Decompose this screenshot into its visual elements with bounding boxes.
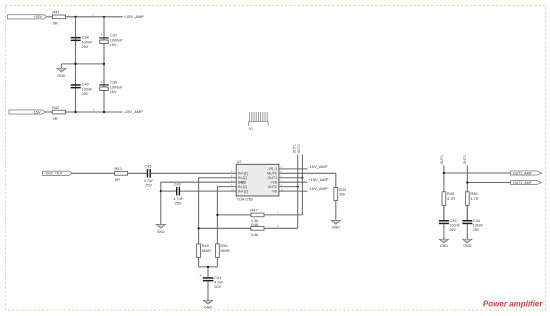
connector IO — [249, 112, 269, 126]
svg-text:C38: C38 — [82, 36, 89, 40]
svg-text:3.3k: 3.3k — [251, 232, 258, 237]
resistor R45 — [442, 191, 455, 205]
svg-text:0R: 0R — [53, 116, 58, 121]
svg-text:GND: GND — [332, 226, 341, 230]
resistor R50 — [216, 243, 230, 257]
svg-text:R43: R43 — [115, 166, 122, 171]
svg-text:U7: U7 — [237, 159, 242, 164]
wire IN-2 riser — [217, 187, 236, 244]
resistor R42 — [52, 105, 65, 121]
svg-text:-VS: -VS — [271, 189, 278, 193]
svg-text:R48: R48 — [251, 222, 258, 227]
svg-text:25V: 25V — [473, 228, 480, 232]
svg-text:OUT2: OUT2 — [297, 144, 301, 153]
svg-text:MUTE: MUTE — [267, 172, 278, 176]
svg-text:4.7uF: 4.7uF — [214, 281, 224, 285]
port +15V — [8, 15, 48, 19]
svg-text:25V: 25V — [82, 92, 89, 96]
port OUT2_AMP — [511, 180, 542, 184]
pin numbers left — [231, 170, 234, 192]
resistor R44 — [334, 187, 347, 201]
net OUT2 bus (IC side) — [297, 155, 299, 229]
svg-text:GND: GND — [440, 244, 449, 248]
wire IN+2 row — [161, 190, 236, 192]
wire R49/R50 join — [199, 258, 218, 278]
svg-text:R42: R42 — [52, 105, 59, 110]
wire C44 to gnd — [466, 224, 468, 239]
svg-text:R47: R47 — [250, 208, 257, 213]
wire R48 row — [199, 227, 298, 229]
svg-text:16V: 16V — [110, 90, 117, 94]
wire MUTE to R44 — [279, 173, 336, 187]
gnd row wire — [62, 63, 105, 65]
svg-text:25V: 25V — [175, 202, 182, 206]
resistor R48 — [251, 222, 264, 237]
svg-text:560R: 560R — [220, 248, 229, 253]
svg-text:-VS_1: -VS_1 — [267, 167, 277, 171]
wire +VS to +15V_AMP — [279, 181, 308, 183]
capacitor C42 — [144, 165, 154, 188]
wire -VS to -15V_AMP — [279, 190, 308, 192]
svg-text:GND: GND — [204, 305, 213, 309]
port -15V — [9, 110, 46, 114]
op-amp U7 TDA7265 — [236, 159, 279, 202]
wire R44 to gnd — [335, 201, 337, 221]
net OUT1 bus (IC side) — [301, 155, 303, 215]
svg-text:C45: C45 — [450, 219, 457, 223]
capacitor C41 — [200, 272, 225, 289]
wire OUT2 pin stub — [279, 186, 298, 188]
resistor R47 — [250, 208, 264, 223]
capacitor C37 — [99, 32, 123, 47]
pin numbers right — [281, 165, 284, 191]
svg-text:+VS: +VS — [270, 181, 277, 185]
svg-text:4.7uF: 4.7uF — [144, 179, 154, 183]
port OSC_OUT — [43, 171, 73, 175]
svg-text:560R: 560R — [202, 248, 211, 253]
svg-text:OUT1_AMP: OUT1_AMP — [513, 171, 533, 175]
svg-text:4.7uF: 4.7uF — [173, 197, 183, 201]
resistor R43 — [115, 166, 128, 182]
ground (input) — [156, 224, 165, 234]
svg-text:OSC_OUT: OSC_OUT — [46, 172, 64, 176]
svg-text:25V: 25V — [82, 45, 89, 49]
svg-text:1000uF: 1000uF — [110, 86, 124, 90]
svg-text:-15V: -15V — [32, 110, 40, 114]
wire C45 to gnd — [443, 224, 445, 239]
svg-text:GND: GND — [463, 244, 472, 248]
svg-text:C43: C43 — [174, 183, 181, 187]
wire C41 to gnd — [207, 281, 209, 300]
svg-text:-15V_AMP: -15V_AMP — [308, 186, 328, 191]
wire GND pin branch — [161, 182, 236, 224]
wire -15V row — [46, 111, 123, 113]
svg-text:16V: 16V — [110, 43, 117, 47]
node C43/GND — [160, 190, 162, 192]
svg-text:TDA7265: TDA7265 — [237, 197, 253, 202]
capacitor C44 — [462, 219, 484, 232]
net OUT2 bus (output side) — [466, 165, 468, 220]
svg-text:IN+[1]: IN+[1] — [238, 172, 248, 176]
svg-text:OUT1: OUT1 — [292, 144, 296, 153]
svg-text:C39: C39 — [110, 81, 117, 85]
svg-text:10k: 10k — [339, 192, 345, 197]
capacitor C40 — [71, 83, 93, 97]
svg-text:R41: R41 — [52, 10, 59, 15]
svg-text:IO: IO — [249, 127, 253, 131]
svg-text:25V: 25V — [449, 228, 456, 232]
ground (C45) — [439, 239, 448, 248]
resistor R46 — [465, 191, 478, 205]
resistor R49 — [197, 243, 211, 257]
svg-text:OUT2_AMP: OUT2_AMP — [513, 181, 533, 185]
svg-text:+15V_AMP: +15V_AMP — [124, 14, 145, 19]
svg-text:+15V_AMP: +15V_AMP — [308, 177, 329, 182]
svg-text:OUT2: OUT2 — [463, 155, 467, 164]
resistor R41 — [52, 10, 65, 26]
capacitor C43 — [173, 183, 183, 206]
wire -VS_1 to -15V_AMP — [279, 168, 308, 170]
wire column C38 — [75, 17, 77, 112]
capacitor C45 — [439, 219, 461, 232]
wire to OUT1_AMP — [444, 172, 511, 174]
svg-text:4.7R: 4.7R — [470, 196, 478, 201]
port OUT1_AMP — [511, 171, 542, 175]
svg-text:IN-[1]: IN-[1] — [238, 176, 247, 180]
svg-text:C44: C44 — [473, 219, 480, 223]
wire R45 to C45 — [443, 205, 445, 220]
ground (R44) — [331, 220, 340, 229]
svg-text:IN-[2]: IN-[2] — [238, 185, 247, 189]
wire R47 row — [217, 214, 302, 216]
svg-text:100nF: 100nF — [449, 224, 460, 228]
svg-text:C42: C42 — [145, 165, 152, 169]
svg-text:-15V_AMP: -15V_AMP — [124, 109, 144, 114]
svg-text:100nF: 100nF — [82, 40, 93, 44]
svg-text:+15V: +15V — [33, 15, 42, 19]
wire OSC row — [73, 172, 237, 174]
svg-text:OUT1: OUT1 — [268, 176, 278, 180]
ground (C44) — [463, 239, 472, 248]
svg-text:25V: 25V — [145, 183, 152, 187]
svg-text:-15V_AMP: -15V_AMP — [308, 164, 328, 169]
svg-text:50V: 50V — [214, 285, 221, 289]
svg-text:100nF: 100nF — [82, 87, 93, 91]
capacitor C39 — [99, 79, 123, 94]
svg-text:GND: GND — [57, 74, 66, 78]
svg-text:OUT2: OUT2 — [268, 185, 278, 189]
wire OUT1 pin stub — [279, 177, 303, 179]
wire +15V row — [47, 16, 123, 18]
wire to OUT2_AMP — [467, 182, 510, 184]
svg-text:0R: 0R — [53, 21, 58, 26]
wire IN-1 riser — [199, 178, 237, 244]
capacitor C38 — [71, 36, 93, 50]
ground (top-left) — [57, 64, 66, 78]
svg-text:100nF: 100nF — [473, 224, 484, 228]
svg-text:GND: GND — [157, 230, 166, 234]
net OUT1 bus (output side) — [443, 165, 445, 220]
svg-text:C40: C40 — [82, 83, 89, 87]
svg-text:4.7R: 4.7R — [447, 196, 455, 201]
node on +15V row — [74, 16, 76, 18]
svg-text:IN+[2]: IN+[2] — [238, 189, 248, 193]
svg-text:C37: C37 — [110, 34, 117, 38]
wire R46 to C44 — [466, 205, 468, 220]
svg-text:Power amplifier: Power amplifier — [483, 300, 543, 309]
svg-text:0R: 0R — [115, 177, 120, 182]
svg-text:1000uF: 1000uF — [110, 39, 124, 43]
wire column C37 — [103, 17, 105, 112]
ground (C41) — [203, 300, 212, 309]
svg-text:GND: GND — [238, 181, 246, 185]
svg-text:C41: C41 — [214, 276, 221, 280]
svg-text:OUT1: OUT1 — [440, 155, 444, 164]
